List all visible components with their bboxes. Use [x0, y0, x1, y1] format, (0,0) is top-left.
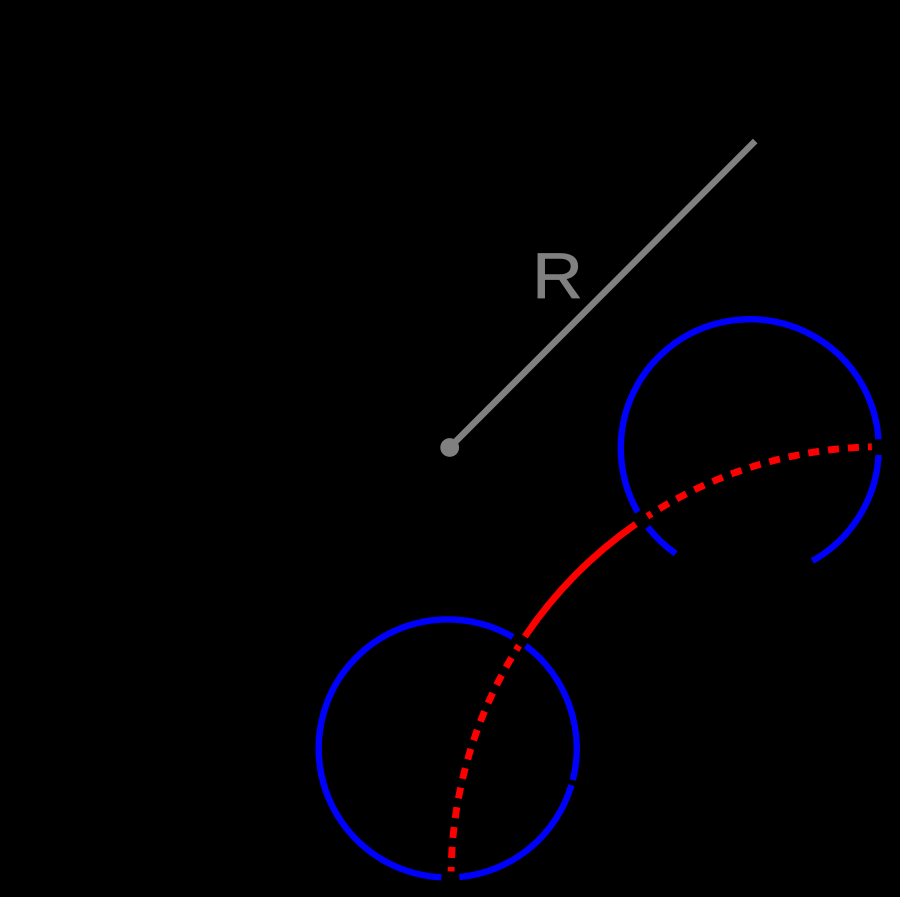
- svg-text:R: R: [532, 240, 583, 312]
